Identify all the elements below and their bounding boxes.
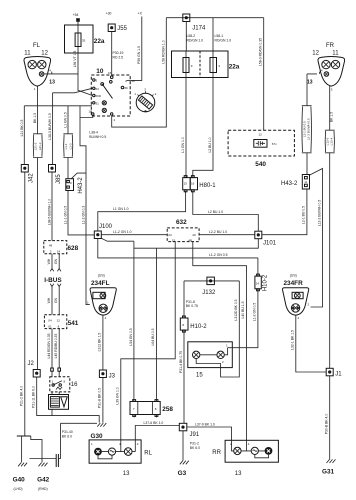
svg-text:540: 540 bbox=[255, 161, 266, 168]
svg-text:L21-2: L21-2 bbox=[33, 142, 37, 150]
svg-text:11: 11 bbox=[24, 50, 31, 56]
svg-text:16: 16 bbox=[131, 79, 135, 83]
svg-text:L12-4: L12-4 bbox=[330, 137, 334, 145]
svg-text:L64 BU 0.5: L64 BU 0.5 bbox=[151, 328, 155, 345]
svg-text:J2: J2 bbox=[28, 361, 35, 367]
svg-text:16: 16 bbox=[191, 182, 195, 186]
svg-text:L38-3 BU/WH 0.5: L38-3 BU/WH 0.5 bbox=[48, 113, 52, 140]
svg-text:(RHD): (RHD) bbox=[38, 487, 48, 491]
svg-text:+54: +54 bbox=[73, 13, 79, 17]
svg-text:L1-1 GN 0.5: L1-1 GN 0.5 bbox=[63, 206, 67, 225]
svg-text:RL: RL bbox=[144, 450, 152, 456]
svg-text:(US): (US) bbox=[98, 274, 105, 278]
svg-text:BK 0.75: BK 0.75 bbox=[186, 304, 198, 308]
svg-text:+X: +X bbox=[138, 12, 143, 16]
svg-text:L56 VT 1.5: L56 VT 1.5 bbox=[73, 51, 77, 68]
svg-text:04: 04 bbox=[48, 318, 52, 322]
svg-text:12: 12 bbox=[312, 50, 319, 56]
svg-text:66D: 66D bbox=[96, 94, 102, 98]
svg-text:L38-5 BU/WH 1.0: L38-5 BU/WH 1.0 bbox=[47, 199, 51, 226]
svg-text:L312 BK 1.5: L312 BK 1.5 bbox=[98, 333, 102, 352]
svg-text:J3: J3 bbox=[109, 373, 116, 379]
svg-text:G31: G31 bbox=[322, 469, 335, 476]
svg-text:RD/GN 1.0: RD/GN 1.0 bbox=[187, 38, 204, 42]
svg-text:L1 GN 0.5: L1 GN 0.5 bbox=[63, 112, 67, 128]
svg-text:L2-2 BU 1.0: L2-2 BU 1.0 bbox=[209, 230, 227, 234]
svg-text:J42: J42 bbox=[29, 173, 35, 183]
svg-text:31: 31 bbox=[96, 101, 100, 105]
svg-text:L21 BK 0.5: L21 BK 0.5 bbox=[20, 119, 24, 136]
svg-text:14: 14 bbox=[57, 250, 61, 254]
svg-text:258: 258 bbox=[162, 406, 173, 413]
svg-text:G40: G40 bbox=[13, 477, 26, 484]
svg-text:15: 15 bbox=[184, 182, 188, 186]
svg-text:23: 23 bbox=[168, 233, 172, 237]
svg-text:L1-2 GN 1.0: L1-2 GN 1.0 bbox=[113, 230, 132, 234]
svg-text:L58 RD/GN 1.0: L58 RD/GN 1.0 bbox=[162, 40, 166, 63]
svg-text:P56 GN 1.5: P56 GN 1.5 bbox=[137, 46, 141, 64]
svg-text:L2 BU 1.0: L2 BU 1.0 bbox=[208, 137, 212, 152]
svg-text:J1: J1 bbox=[335, 372, 342, 378]
svg-text:L37-6 BK 1.0: L37-6 BK 1.0 bbox=[144, 421, 164, 425]
svg-text:P21-11 BK 6.0: P21-11 BK 6.0 bbox=[32, 386, 36, 408]
svg-text:35: 35 bbox=[82, 39, 86, 43]
svg-text:P31-4 BK 0.75: P31-4 BK 0.75 bbox=[179, 351, 183, 373]
svg-text:13: 13 bbox=[307, 80, 313, 86]
svg-text:FL: FL bbox=[33, 43, 41, 49]
svg-text:L12-6: L12-6 bbox=[325, 137, 329, 145]
svg-text:L45 RD/BU 0.35: L45 RD/BU 0.35 bbox=[54, 334, 58, 359]
svg-text:15: 15 bbox=[196, 373, 203, 379]
svg-text:BK 1.5: BK 1.5 bbox=[33, 113, 37, 123]
svg-text:64: 64 bbox=[96, 87, 100, 91]
svg-text:FR: FR bbox=[326, 43, 335, 49]
svg-text:40: 40 bbox=[192, 233, 196, 237]
svg-text:01: 01 bbox=[48, 325, 52, 329]
svg-text:G30: G30 bbox=[91, 433, 104, 440]
svg-text:22a: 22a bbox=[229, 63, 240, 70]
svg-text:J132: J132 bbox=[202, 290, 216, 296]
svg-text:16: 16 bbox=[71, 382, 78, 388]
svg-text:L1-3: L1-3 bbox=[69, 143, 73, 149]
svg-text:G3: G3 bbox=[178, 470, 187, 477]
svg-text:L1-2 GN 0.3: L1-2 GN 0.3 bbox=[81, 206, 85, 225]
svg-text:L37-9 BK 1.0: L37-9 BK 1.0 bbox=[195, 422, 215, 426]
svg-text:H80-1: H80-1 bbox=[199, 183, 216, 189]
svg-text:L58-3 RD/GN 0.35: L58-3 RD/GN 0.35 bbox=[259, 38, 263, 66]
svg-text:L39 GN 1.0: L39 GN 1.0 bbox=[116, 387, 120, 404]
svg-text:12: 12 bbox=[259, 132, 263, 136]
svg-text:BU/WH 0.5: BU/WH 0.5 bbox=[89, 135, 106, 139]
svg-text:628: 628 bbox=[68, 245, 79, 252]
svg-text:15: 15 bbox=[108, 71, 112, 75]
svg-text:L40 BU 1.5: L40 BU 1.5 bbox=[241, 301, 245, 318]
svg-text:L2 BU 1.0: L2 BU 1.0 bbox=[208, 210, 223, 214]
svg-text:RR: RR bbox=[212, 450, 221, 456]
svg-text:BK 6.0: BK 6.0 bbox=[190, 446, 200, 450]
svg-text:RD 2.5: RD 2.5 bbox=[113, 55, 124, 59]
svg-text:234FL: 234FL bbox=[91, 280, 110, 287]
svg-text:L1-2 GN 0.5: L1-2 GN 0.5 bbox=[253, 303, 257, 322]
svg-text:11: 11 bbox=[332, 50, 339, 56]
svg-text:J101: J101 bbox=[263, 240, 277, 246]
svg-text:L21-3: L21-3 bbox=[38, 142, 42, 150]
svg-text:P21-2 BK 4.0: P21-2 BK 4.0 bbox=[20, 386, 24, 406]
svg-text:I-BUS: I-BUS bbox=[44, 277, 62, 284]
svg-text:J100: J100 bbox=[99, 224, 113, 230]
svg-text:10: 10 bbox=[96, 68, 104, 75]
svg-text:(US): (US) bbox=[290, 274, 297, 278]
svg-text:P30-B BK 4.0: P30-B BK 4.0 bbox=[325, 414, 329, 435]
svg-text:L2-1 BU 0.5: L2-1 BU 0.5 bbox=[302, 206, 306, 224]
svg-text:L1-1: L1-1 bbox=[64, 143, 68, 149]
svg-text:BK 1.5: BK 1.5 bbox=[330, 112, 334, 122]
svg-text:L54 GN 0.5: L54 GN 0.5 bbox=[129, 328, 133, 345]
svg-text:J91: J91 bbox=[190, 432, 200, 438]
svg-text:67v: 67v bbox=[272, 142, 277, 146]
svg-text:P31-8: P31-8 bbox=[186, 300, 195, 304]
svg-text:13: 13 bbox=[123, 471, 130, 477]
svg-text:J85: J85 bbox=[56, 174, 62, 184]
svg-text:22a: 22a bbox=[94, 38, 105, 45]
svg-text:234FR: 234FR bbox=[284, 280, 304, 287]
svg-text:GN: GN bbox=[54, 258, 58, 264]
svg-text:14: 14 bbox=[256, 282, 260, 286]
svg-text:H43-2: H43-2 bbox=[281, 181, 298, 187]
svg-text:L2-3 BU/WH 0.5: L2-3 BU/WH 0.5 bbox=[307, 118, 311, 140]
svg-text:L1-2 GN 0.5: L1-2 GN 0.5 bbox=[209, 253, 228, 257]
svg-text:632: 632 bbox=[176, 219, 187, 226]
svg-text:66: 66 bbox=[125, 86, 129, 90]
svg-text:L38-4: L38-4 bbox=[89, 131, 98, 135]
svg-text:J55: J55 bbox=[117, 26, 127, 32]
svg-text:541: 541 bbox=[68, 320, 79, 327]
svg-text:4B: 4B bbox=[188, 238, 192, 242]
svg-text:(LHD): (LHD) bbox=[14, 487, 23, 491]
svg-text:WH: WH bbox=[47, 258, 51, 264]
svg-text:+30: +30 bbox=[106, 12, 112, 16]
svg-text:L1 GN 1.0: L1 GN 1.0 bbox=[181, 137, 185, 153]
svg-text:J174: J174 bbox=[192, 26, 206, 32]
svg-text:GN: GN bbox=[54, 297, 58, 303]
svg-text:L12-2 BU/WH 0.5: L12-2 BU/WH 0.5 bbox=[317, 200, 321, 227]
svg-text:WH: WH bbox=[47, 297, 51, 303]
svg-text:RD/GN 1.0: RD/GN 1.0 bbox=[215, 38, 232, 42]
svg-text:L44 RD/GN 0.35: L44 RD/GN 0.35 bbox=[47, 333, 51, 358]
svg-text:H10-2: H10-2 bbox=[263, 274, 269, 291]
svg-text:11: 11 bbox=[304, 180, 307, 184]
svg-text:P31-2: P31-2 bbox=[190, 442, 199, 446]
svg-text:12: 12 bbox=[57, 318, 61, 322]
svg-text:13: 13 bbox=[49, 80, 55, 86]
svg-text:P31-40: P31-40 bbox=[62, 430, 73, 434]
svg-text:L1 GN 1.0: L1 GN 1.0 bbox=[113, 207, 129, 211]
svg-text:P31-8 BK 0.5: P31-8 BK 0.5 bbox=[98, 388, 102, 408]
svg-text:L312D BK 0.5: L312D BK 0.5 bbox=[234, 299, 238, 320]
svg-text:L32-1 BK 1.5: L32-1 BK 1.5 bbox=[291, 330, 295, 350]
svg-text:13: 13 bbox=[235, 471, 242, 477]
svg-text:H10-2: H10-2 bbox=[190, 324, 207, 330]
svg-text:BK 6.0: BK 6.0 bbox=[62, 435, 72, 439]
svg-text:12: 12 bbox=[41, 50, 48, 56]
svg-text:G42: G42 bbox=[37, 477, 50, 484]
svg-text:H43-2: H43-2 bbox=[78, 177, 84, 194]
svg-text:15: 15 bbox=[172, 238, 176, 242]
svg-text:1B: 1B bbox=[89, 110, 93, 114]
svg-text:49: 49 bbox=[49, 243, 53, 247]
